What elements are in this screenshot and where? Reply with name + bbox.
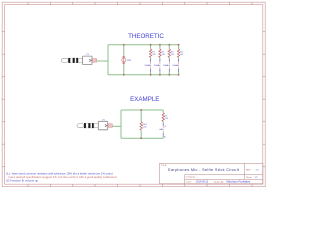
- svg-text:S1: S1: [164, 136, 167, 138]
- svg-text:REV:: REV:: [246, 169, 251, 171]
- svg-text:Earphones Mic - Selfie Stick C: Earphones Mic - Selfie Stick Circuit: [168, 168, 240, 172]
- svg-text:0R: 0R: [180, 54, 183, 56]
- svg-text:THEORETIC: THEORETIC: [128, 33, 164, 40]
- svg-text:Nikolaos Ftylitakis: Nikolaos Ftylitakis: [226, 180, 251, 184]
- svg-text:EXAMPLE: EXAMPLE: [130, 96, 159, 103]
- svg-text:220: 220: [165, 118, 169, 120]
- svg-text:1/1: 1/1: [255, 177, 259, 179]
- svg-text:Date:: Date:: [186, 181, 192, 184]
- svg-text:1.8k: 1.8k: [143, 127, 148, 129]
- svg-text:S2: S2: [154, 65, 157, 67]
- svg-text:Company:: Company:: [186, 177, 196, 179]
- svg-text:2019-06-22: 2019-06-22: [196, 181, 209, 184]
- svg-text:MK1: MK1: [127, 60, 132, 62]
- svg-text:220: 220: [152, 54, 156, 56]
- svg-text:135: 135: [171, 54, 175, 56]
- svg-text:S4: S4: [172, 65, 175, 67]
- svg-text:1.0: 1.0: [256, 169, 260, 171]
- svg-text:S3: S3: [163, 65, 166, 67]
- svg-text:-: -: [197, 177, 198, 179]
- svg-text:470: 470: [162, 54, 166, 56]
- svg-text:TITLE:: TITLE:: [161, 165, 167, 167]
- svg-text:Sheet:: Sheet:: [246, 176, 253, 179]
- svg-text:Drawn By:: Drawn By:: [214, 181, 224, 184]
- svg-text:B: B: [165, 126, 167, 128]
- svg-text:(2) Function B: volume up: (2) Function B: volume up: [6, 179, 38, 183]
- svg-text:S1: S1: [145, 65, 148, 67]
